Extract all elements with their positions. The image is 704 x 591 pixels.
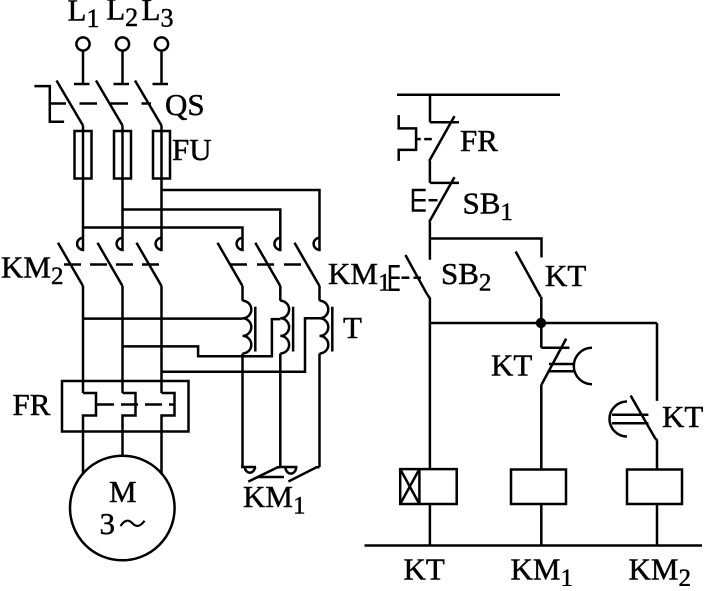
wire junction to KT NC delayed xyxy=(540,323,543,348)
wire L2 stub xyxy=(121,51,124,85)
wire KT NC to KM1 coil xyxy=(540,384,543,469)
svg-text:T: T xyxy=(343,310,362,345)
thermal relay FR heater 1 xyxy=(83,393,96,432)
wire FR1 to motor xyxy=(82,432,85,475)
wire QS pole2 to fuse xyxy=(121,126,124,132)
svg-text:QS: QS xyxy=(165,87,205,122)
control rail xyxy=(430,322,657,325)
contactor KM1 linkage dashed line xyxy=(230,263,311,266)
transformer T core 2 xyxy=(292,307,295,352)
svg-text:KM2: KM2 xyxy=(629,552,691,587)
thermal relay FR linkage dashed line xyxy=(97,403,174,406)
svg-text:KT: KT xyxy=(491,348,532,383)
wire node A branch to KT contact xyxy=(430,239,542,258)
transformer T winding 1 xyxy=(243,301,252,354)
contact KT NC delayed opening xyxy=(541,339,592,385)
svg-text:KT: KT xyxy=(404,552,445,587)
svg-text:KT: KT xyxy=(662,399,703,434)
svg-text:L1: L1 xyxy=(68,0,100,33)
svg-text:KT: KT xyxy=(545,258,586,293)
contactor KM2 main contact pole 1 xyxy=(58,238,83,286)
switch QS pole 3 xyxy=(135,81,168,126)
wire FR to SB1 xyxy=(429,161,432,183)
contactor KM1 main contact pole 3 (top) xyxy=(295,238,320,286)
contactor coil KM2 xyxy=(627,470,682,505)
motor M 3~ xyxy=(70,456,175,561)
wire coil1 down to KM1 star contact xyxy=(241,354,244,468)
wire KM1 pole1 to coil1 xyxy=(241,286,244,301)
wire bus to FR contact xyxy=(429,95,432,123)
thermal relay FR actuator box xyxy=(399,115,432,161)
svg-text:KM1: KM1 xyxy=(511,552,573,587)
svg-text:SB2: SB2 xyxy=(441,256,491,297)
svg-text:M: M xyxy=(109,474,137,509)
transformer T core 1 xyxy=(254,307,257,352)
fuse FU pole 2 xyxy=(114,131,131,179)
svg-text:KM1: KM1 xyxy=(243,479,305,520)
label tilde xyxy=(121,521,145,526)
wire KM1 coil to bottom rail xyxy=(540,504,543,546)
wire fuse1 down to KM2 xyxy=(82,179,85,252)
contact FR NC (control) xyxy=(429,116,459,161)
relay coil KT xyxy=(400,469,457,504)
svg-text:L2: L2 xyxy=(106,0,138,32)
wire fuse2 down to KM2 xyxy=(121,179,124,252)
contactor KM2 linkage dashed line xyxy=(64,263,163,266)
wire SB1 to node A xyxy=(429,222,432,260)
thermal relay FR heater 3 xyxy=(162,393,175,432)
contactor coil KM1 xyxy=(511,470,566,505)
fuse FU pole 1 xyxy=(75,131,92,179)
transformer T core 3 xyxy=(331,307,334,352)
svg-text:KM1: KM1 xyxy=(328,256,390,297)
svg-text:KM2: KM2 xyxy=(1,250,63,291)
node L2 terminal xyxy=(116,37,129,50)
wire KM2 pole2 down to FR xyxy=(121,286,124,393)
wire KM2 coil to bottom rail xyxy=(656,504,659,546)
wire KT coil to bottom rail xyxy=(429,504,432,546)
wire KM1 pole3 to coil3 xyxy=(318,286,321,301)
node junction dot xyxy=(536,318,546,328)
wire branch phase1 to KM1 contacts xyxy=(83,228,243,252)
pushbutton SB2 NO xyxy=(390,255,430,299)
wire fuse3 down to KM2 xyxy=(160,179,163,252)
wire branch phase2 to KM1 contacts xyxy=(123,210,281,252)
contactor KM1 star linkage dash xyxy=(258,476,284,479)
contactor KM1 main contact pole 2 (top) xyxy=(255,238,280,286)
fuse FU pole 3 xyxy=(153,131,170,179)
wire branch phase3 to KM1 contacts xyxy=(162,190,320,251)
wire FR3 to motor xyxy=(160,432,163,475)
wire KM2 pole1 down to FR xyxy=(82,286,85,393)
wire tap2 transformer to phase2 xyxy=(123,319,281,356)
contactor KM1 star contact 2 (bottom) xyxy=(280,467,319,482)
contact KT NO (self hold) xyxy=(516,252,541,297)
node L3 terminal xyxy=(155,37,168,50)
wire L3 stub xyxy=(160,51,163,85)
svg-text:SB1: SB1 xyxy=(463,186,513,227)
wire coil2 down to KM1 star contact xyxy=(279,354,282,468)
svg-text:FR: FR xyxy=(13,387,51,422)
wire FR2 to motor xyxy=(121,432,124,457)
wire KM1 pole2 to coil2 xyxy=(279,286,282,301)
wire rail to KT NO delayed xyxy=(656,323,659,401)
thermal relay FR heater 2 xyxy=(123,393,136,432)
wire SB2 to rail xyxy=(429,299,432,323)
wire tap3 transformer to phase3 xyxy=(162,318,320,371)
wire L1 stub xyxy=(82,51,85,85)
switch QS linkage dashed line xyxy=(49,102,152,105)
pushbutton SB1 NC xyxy=(413,177,459,222)
wire KM2 pole3 down to FR xyxy=(160,286,163,393)
control top bus xyxy=(397,94,560,97)
transformer T winding 3 xyxy=(320,301,329,354)
svg-text:L3: L3 xyxy=(142,0,174,33)
wire rail to KT coil xyxy=(429,323,432,469)
node L1 terminal xyxy=(76,37,89,50)
contactor KM1 main contact pole 1 (top) xyxy=(218,238,243,286)
switch QS pole 1 xyxy=(57,81,90,126)
switch QS pole 2 xyxy=(96,81,129,126)
contactor KM1 star contact 1 (bottom) xyxy=(241,467,280,482)
transformer T winding 2 xyxy=(280,301,289,354)
contactor KM2 main contact pole 2 xyxy=(98,238,123,286)
svg-text:FU: FU xyxy=(172,132,212,167)
wire tap1 transformer to phase1 xyxy=(83,317,243,320)
thermal relay FR box xyxy=(62,381,189,432)
wire QS pole3 to fuse xyxy=(160,126,163,132)
control bottom rail xyxy=(365,544,703,547)
wire KT NO to KM2 coil xyxy=(656,440,659,469)
wire coil3 down to KM1 star contact xyxy=(318,354,321,468)
contact KT NO delayed closing xyxy=(610,396,658,441)
svg-text:3: 3 xyxy=(100,506,116,541)
switch QS handle bracket xyxy=(34,86,64,122)
wire KT contact to junction xyxy=(540,297,543,323)
contactor KM2 main contact pole 3 xyxy=(137,238,162,286)
svg-text:FR: FR xyxy=(460,123,498,158)
wire QS pole1 to fuse xyxy=(82,126,85,132)
